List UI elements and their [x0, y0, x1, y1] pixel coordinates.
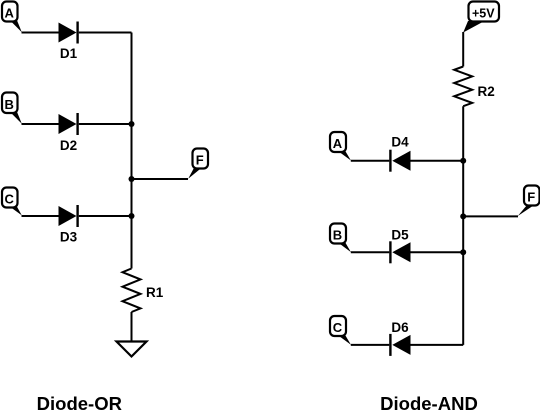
- svg-text:F: F: [527, 189, 535, 204]
- wire D5 to bus: [411, 251, 464, 253]
- node B (left flag): [2, 93, 22, 124]
- diode D4: [390, 135, 410, 172]
- svg-text:Diode-AND: Diode-AND: [380, 393, 478, 412]
- junction dot F row: [460, 213, 466, 219]
- wire A to D4: [351, 160, 390, 162]
- wire C to D6: [351, 344, 390, 346]
- svg-text:A: A: [5, 5, 15, 20]
- svg-text:R1: R1: [146, 285, 164, 300]
- resistor R1: [123, 269, 164, 313]
- power flag +5V: [463, 2, 499, 33]
- svg-text:F: F: [196, 152, 204, 167]
- svg-text:A: A: [333, 136, 343, 151]
- svg-text:B: B: [333, 227, 342, 242]
- svg-text:+5V: +5V: [472, 6, 495, 20]
- wire left bus: [131, 33, 133, 269]
- junction dot B row: [129, 121, 135, 127]
- svg-text:D6: D6: [391, 320, 409, 335]
- node B (right flag): [330, 224, 351, 253]
- wire A to D1: [22, 32, 59, 34]
- wire D6 to bus: [411, 344, 464, 346]
- wire D4 to bus: [411, 160, 464, 162]
- svg-text:R2: R2: [478, 84, 495, 99]
- svg-text:C: C: [5, 191, 15, 206]
- wire C to D3: [22, 215, 59, 217]
- diode D6: [390, 320, 410, 356]
- resistor R2: [454, 67, 495, 107]
- svg-text:C: C: [333, 320, 343, 335]
- wire D3 to bus: [79, 215, 132, 217]
- node F (right flag): [518, 186, 540, 217]
- svg-text:D4: D4: [391, 135, 409, 150]
- diode D3: [59, 205, 78, 245]
- node C (left flag): [2, 188, 22, 216]
- wire R1 to ground: [131, 312, 133, 342]
- diode D5: [390, 227, 410, 263]
- wire F to bus: [132, 178, 189, 180]
- junction dot C row: [129, 213, 135, 219]
- svg-text:D3: D3: [60, 230, 78, 245]
- diode D1: [59, 22, 78, 62]
- svg-text:D2: D2: [60, 138, 77, 153]
- wire D1 to bus: [79, 32, 132, 34]
- wire B to D2: [22, 123, 59, 125]
- node C (right flag): [330, 316, 351, 345]
- node F (left flag): [188, 149, 208, 179]
- junction dot D5 row: [460, 249, 466, 255]
- wire F to bus: [463, 215, 518, 217]
- wire +5V to R2: [462, 32, 464, 67]
- svg-text:D1: D1: [60, 46, 78, 61]
- svg-text:Diode-OR: Diode-OR: [37, 393, 122, 412]
- wire B to D5: [351, 251, 390, 253]
- ground: [117, 342, 147, 357]
- svg-text:B: B: [5, 97, 14, 112]
- node A (left flag): [2, 2, 22, 33]
- svg-text:D5: D5: [391, 227, 409, 242]
- wire right bus: [462, 106, 464, 345]
- junction dot F row: [129, 176, 135, 182]
- junction dot D4 row: [460, 158, 466, 164]
- wire D2 to bus: [79, 123, 132, 125]
- diode D2: [59, 113, 78, 153]
- node A (right flag): [330, 132, 351, 161]
